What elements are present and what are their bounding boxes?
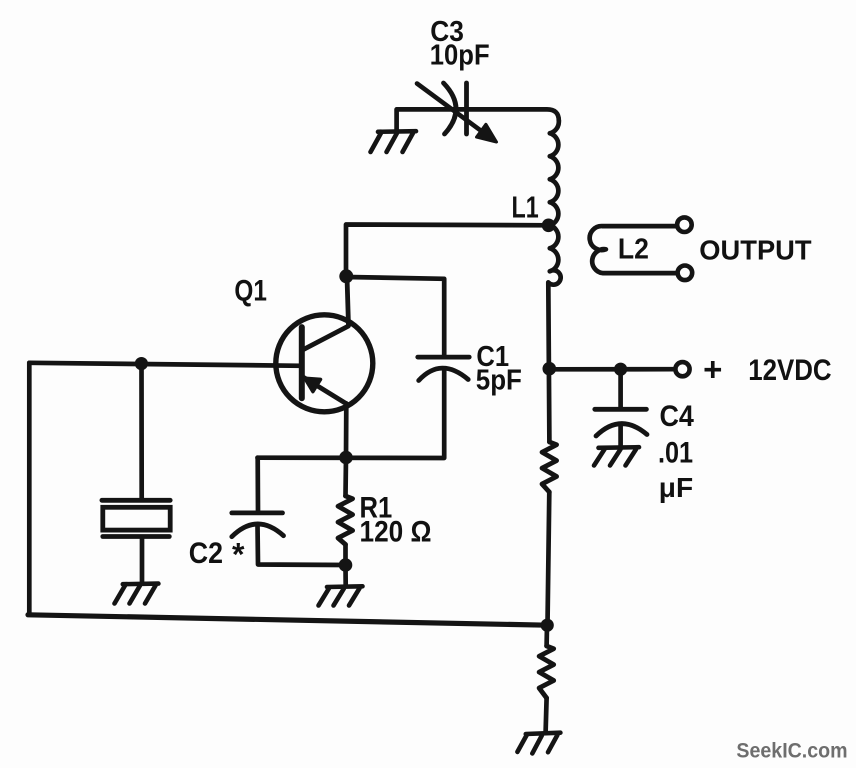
svg-text:SeekIC.com: SeekIC.com — [736, 739, 847, 762]
svg-text:OUTPUT: OUTPUT — [699, 234, 811, 265]
svg-text:5pF: 5pF — [476, 365, 522, 397]
svg-text:10pF: 10pF — [430, 40, 490, 72]
svg-text:120 Ω: 120 Ω — [360, 516, 432, 549]
svg-text:L2: L2 — [618, 234, 649, 266]
svg-text:*: * — [232, 537, 245, 573]
svg-text:C2: C2 — [189, 537, 223, 570]
svg-text:.01: .01 — [658, 437, 693, 470]
svg-text:12VDC: 12VDC — [748, 354, 831, 387]
svg-text:L1: L1 — [512, 190, 539, 225]
svg-text:+: + — [703, 351, 722, 388]
svg-text:Q1: Q1 — [234, 275, 267, 308]
svg-text:μF: μF — [659, 472, 693, 503]
svg-text:C4: C4 — [660, 400, 695, 433]
